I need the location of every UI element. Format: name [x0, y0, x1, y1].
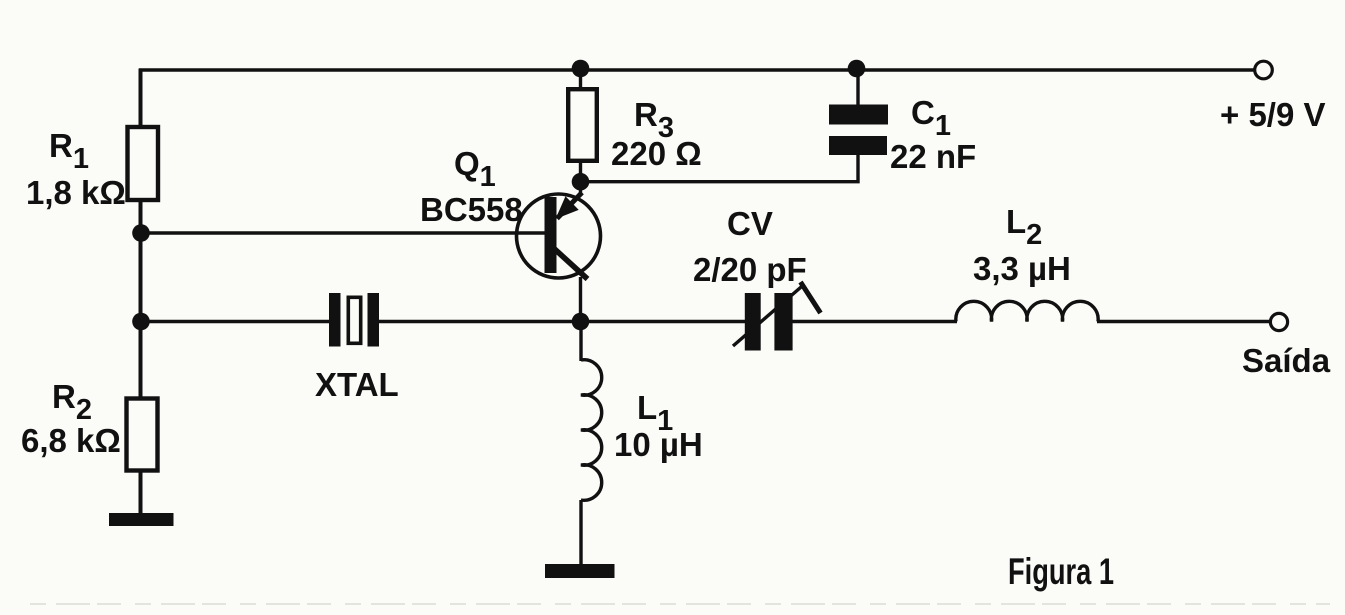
label CV value 2/20 pF [693, 251, 807, 288]
ground center [545, 564, 615, 578]
svg-text:3,3 µH: 3,3 µH [973, 250, 1071, 287]
wire emitter to C1 bottom [581, 155, 859, 182]
svg-text:R2: R2 [52, 378, 92, 426]
wire left vertical branch [139, 69, 143, 514]
inductor L1 [581, 322, 602, 565]
wire collector lead down [579, 277, 582, 322]
label Saida [1242, 342, 1331, 379]
label R2 value 6,8 kOhm [21, 422, 121, 459]
label R1 value 1,8 kOhm [26, 174, 126, 211]
label C1 value 22 nF [890, 138, 976, 175]
node top rail at R3 [572, 60, 590, 78]
label R3 [634, 96, 674, 144]
terminal output circle [1270, 313, 1287, 330]
label L1 value 10 uH [614, 426, 703, 463]
node top rail at C1 [848, 60, 866, 78]
node base junction [132, 224, 150, 242]
node collector junction [572, 313, 590, 331]
wire emitter lead up [579, 182, 582, 196]
label XTAL [315, 366, 399, 403]
scan artifact bottom line [30, 603, 1330, 605]
label L2 value 3,3 uH [973, 250, 1071, 287]
svg-text:L2: L2 [1006, 203, 1042, 251]
label R3 value 220 Ohm [611, 135, 702, 172]
label supply +5/9V [1220, 96, 1326, 133]
label R2 [52, 378, 92, 426]
wire output segment [1097, 320, 1271, 323]
svg-text:R1: R1 [49, 127, 89, 175]
wire top supply rail [139, 68, 1255, 71]
svg-text:10 µH: 10 µH [614, 426, 703, 463]
capacitor C1 [829, 69, 888, 156]
capacitor CV variable [733, 282, 821, 351]
svg-text:1,8 kΩ: 1,8 kΩ [26, 174, 126, 211]
node main line left junction [132, 313, 150, 331]
label Figura 1 [1008, 551, 1114, 592]
terminal supply circle [1255, 61, 1273, 79]
label R1 [49, 127, 89, 175]
label BC558 [420, 191, 523, 228]
label Q1 [454, 145, 496, 193]
svg-text:2/20 pF: 2/20 pF [693, 251, 807, 288]
wire main line middle segment [379, 320, 745, 323]
wire base line [141, 231, 547, 234]
crystal XTAL [329, 293, 379, 347]
svg-text:22 nF: 22 nF [890, 138, 976, 175]
svg-text:Saída: Saída [1242, 342, 1331, 379]
label CV [727, 205, 773, 242]
svg-text:Q1: Q1 [454, 145, 496, 193]
transistor Q1 BC558 [517, 193, 601, 280]
svg-text:6,8 kΩ: 6,8 kΩ [21, 422, 121, 459]
wire main horizontal line left segment [141, 320, 331, 323]
node emitter junction [572, 173, 590, 191]
label L1 [637, 389, 673, 437]
label C1 [911, 94, 951, 142]
resistor R3 [568, 69, 597, 183]
inductor L2 [956, 301, 1098, 321]
svg-text:XTAL: XTAL [315, 366, 399, 403]
svg-text:C1: C1 [911, 94, 951, 142]
svg-text:Figura 1: Figura 1 [1008, 551, 1114, 592]
ground left [109, 513, 174, 526]
svg-text:CV: CV [727, 205, 773, 242]
svg-text:+ 5/9 V: + 5/9 V [1220, 96, 1326, 133]
resistor R1 [128, 127, 159, 200]
resistor R2 [127, 399, 158, 471]
label L2 [1006, 203, 1042, 251]
svg-text:BC558: BC558 [420, 191, 523, 228]
wire main line right segment [793, 320, 958, 323]
svg-text:220 Ω: 220 Ω [611, 135, 702, 172]
